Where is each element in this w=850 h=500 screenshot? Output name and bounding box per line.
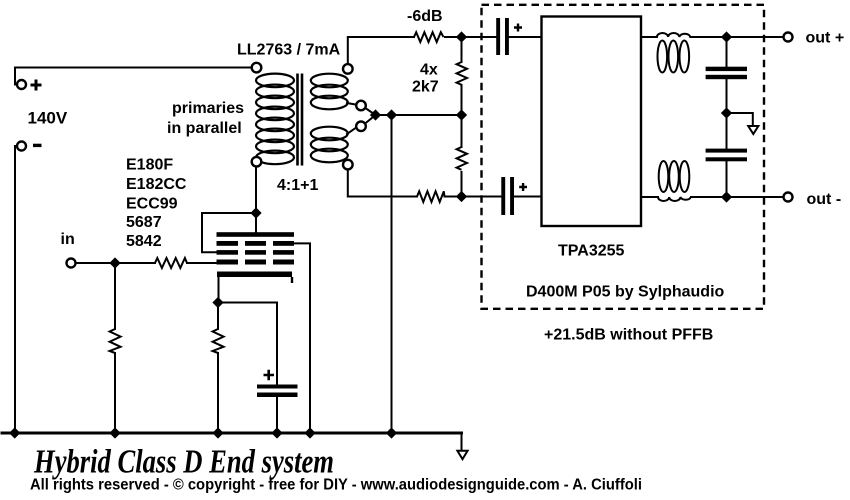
terminal secondary top (343, 64, 353, 74)
terminal primary top (252, 63, 262, 73)
node out- filter (722, 192, 732, 202)
wire inductor L1 to out+ terminal (690, 36, 783, 38)
resistor R2 grid leak (110, 329, 121, 353)
wire out+ node down through filter caps (726, 37, 728, 197)
wire -6dB resistor to input cap (445, 36, 542, 38)
wire top coil end to inner terminal (347, 103, 357, 105)
capacitor C3 input lower (501, 177, 514, 215)
node out+ filter (722, 32, 732, 42)
svg-text:LL2763 / 7mA: LL2763 / 7mA (237, 42, 341, 59)
wire B- supply down to ground bus (15, 146, 18, 432)
inductor L1 (657, 33, 690, 73)
terminal out+ (784, 33, 793, 42)
terminal primary bottom (252, 157, 262, 167)
svg-text:All rights reserved - © copyri: All rights reserved - © copyright - free… (30, 477, 642, 494)
wire cathode lead (217, 276, 220, 432)
terminal B+ (17, 80, 26, 89)
capacitor C5 output filter lower (706, 149, 747, 162)
wire lower resistor to lower input cap (445, 196, 542, 198)
wire secondary bottom to lower resistor (348, 170, 417, 197)
label B- minus sign (33, 144, 42, 147)
terminal secondary inner upper (356, 101, 366, 111)
svg-text:5687: 5687 (126, 214, 162, 231)
svg-text:E180F: E180F (126, 157, 173, 174)
node input junction (110, 258, 120, 268)
wire filter midpoint to ground stub (727, 113, 753, 126)
terminal B- (17, 142, 26, 151)
node filter midpoint (722, 108, 732, 118)
node bus cathode (213, 428, 223, 438)
wire center node down to bus (391, 115, 393, 432)
terminal secondary inner lower (356, 122, 366, 132)
svg-text:D400M P05 by Sylphaudio: D400M P05 by Sylphaudio (526, 284, 725, 301)
wire grid3 to ground (294, 243, 310, 432)
node divider middle (457, 110, 467, 120)
capacitor C2 plus sign (514, 24, 522, 32)
node bus left (10, 428, 20, 438)
ground bus (2, 432, 462, 435)
capacitor C3 plus sign (519, 183, 527, 191)
svg-text:ECC99: ECC99 (126, 196, 178, 213)
wire grid2-plate strap (202, 213, 256, 252)
ground main (457, 451, 467, 459)
resistor R3 cathode (213, 329, 224, 353)
svg-text:+21.5dB without PFFB: +21.5dB without PFFB (544, 327, 713, 344)
wire grid-leak node down (114, 263, 116, 432)
wire secondary top to -6dB resistor (348, 37, 414, 64)
wire B+ supply to primary top (15, 68, 252, 85)
resistor R5 2k7 upper (457, 62, 467, 85)
svg-text:out +: out + (806, 29, 845, 46)
node plate junction (251, 208, 261, 218)
tube V1 grid g2 (217, 250, 295, 255)
inductor L2 (658, 161, 691, 201)
node bus grid3 (305, 428, 315, 438)
label B+ plus sign (31, 80, 42, 91)
svg-text:4x: 4x (420, 62, 438, 79)
capacitor C1 plus sign (264, 370, 275, 380)
wire input to grid (76, 262, 217, 264)
svg-text:in: in (61, 231, 75, 248)
svg-text:out -: out - (807, 191, 842, 208)
node secondary tap A (371, 110, 381, 120)
svg-text:TPA3255: TPA3255 (558, 242, 625, 259)
terminal out- (784, 193, 793, 202)
IC U1 TPA3255 box (542, 17, 642, 227)
resistor R1 grid series (155, 258, 187, 268)
node secondary tap B (387, 110, 397, 120)
wire TPA out- to inductor (641, 196, 658, 198)
svg-text:140V: 140V (28, 109, 68, 128)
wire secondary inner taps to center node (365, 108, 462, 125)
svg-text:-6dB: -6dB (407, 8, 443, 25)
resistor R4 -6dB series (414, 32, 444, 42)
capacitor C1 cathode bypass (257, 385, 298, 398)
capacitor C2 input upper (496, 18, 509, 55)
ground module (748, 126, 758, 134)
node bus bypass cap (272, 428, 282, 438)
transformer T1 secondary lower winding (311, 127, 348, 163)
svg-text:2k7: 2k7 (412, 79, 439, 96)
node bus grid-leak (110, 428, 120, 438)
transformer T1 core (298, 74, 303, 166)
wire cathode to bypass cap (218, 303, 277, 433)
resistor R7 lower series (417, 191, 445, 202)
tube V1 plate (217, 232, 295, 237)
wire bottom coil end to inner terminal (347, 127, 357, 134)
resistor R6 2k7 lower (457, 147, 467, 170)
tube V1 grid g3 (217, 241, 295, 246)
wire bus to main ground (461, 433, 463, 450)
svg-text:primaries: primaries (172, 100, 244, 117)
tube V1 grid g1 (217, 260, 295, 265)
svg-text:4:1+1: 4:1+1 (277, 177, 318, 194)
capacitor C4 output filter upper (706, 67, 747, 80)
terminal input (67, 259, 76, 268)
node cathode junction (213, 298, 223, 308)
svg-text:E182CC: E182CC (126, 176, 187, 193)
svg-text:Hybrid Class D End system: Hybrid Class D End system (33, 444, 334, 481)
node divider top (457, 32, 467, 42)
svg-text:5842: 5842 (126, 233, 162, 250)
wire inductor L2 to out- terminal (691, 196, 784, 198)
transformer T1 secondary upper winding (311, 74, 348, 110)
node bus secondary center (387, 428, 397, 438)
transformer T1 primary winding (256, 74, 294, 165)
tube V1 cathode (217, 272, 293, 284)
wire 2k7 divider chain (461, 37, 463, 197)
terminal secondary bottom (343, 160, 353, 170)
wire plate lead (255, 166, 257, 232)
svg-text:in parallel: in parallel (167, 120, 242, 137)
wire TPA out+ to inductor (641, 36, 657, 38)
node divider bottom (457, 192, 467, 202)
module dashed enclosure (482, 5, 765, 309)
